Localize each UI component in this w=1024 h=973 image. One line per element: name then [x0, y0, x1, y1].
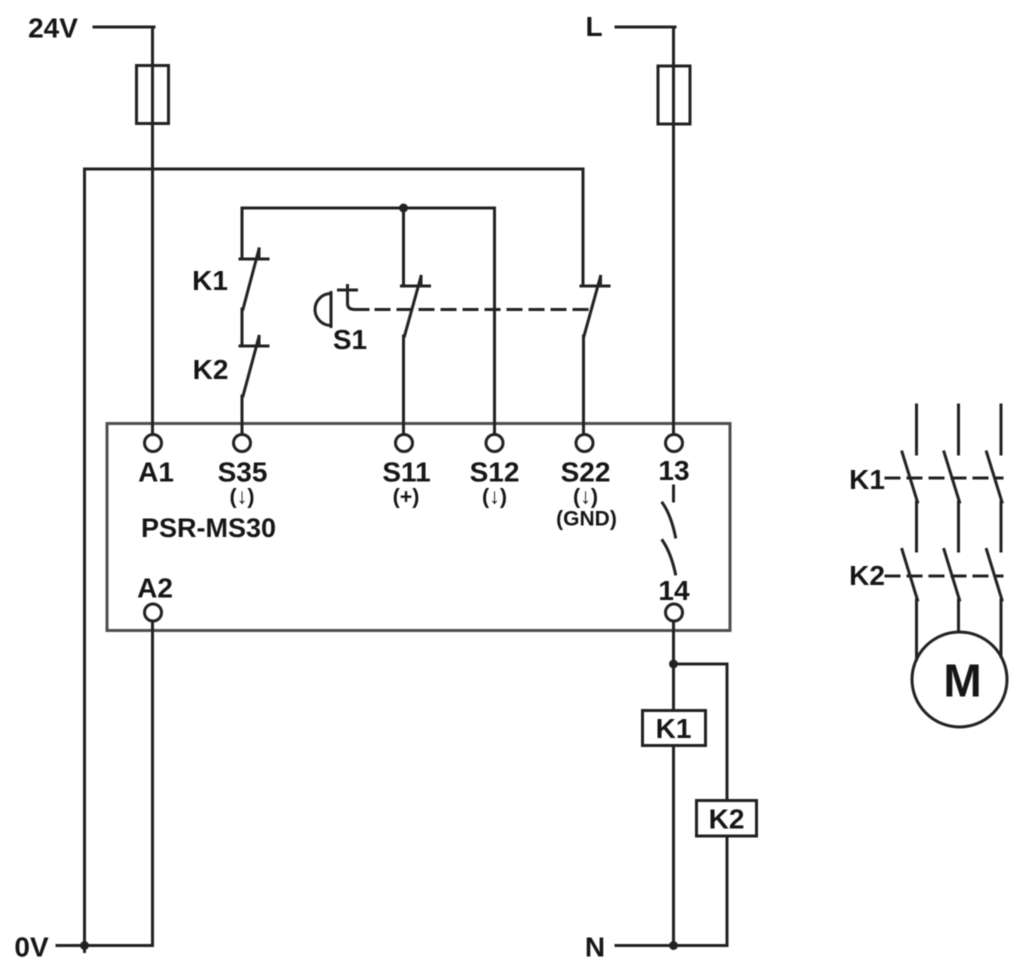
- svg-text:14: 14: [658, 575, 690, 606]
- svg-text:L: L: [585, 11, 602, 42]
- svg-text:K1: K1: [849, 464, 885, 495]
- svg-text:M: M: [943, 655, 981, 707]
- svg-text:13: 13: [658, 455, 689, 486]
- svg-text:S22: S22: [561, 457, 611, 488]
- svg-text:K1: K1: [656, 713, 692, 744]
- svg-text:N: N: [585, 932, 605, 963]
- svg-text:S1: S1: [333, 324, 367, 355]
- svg-text:K2: K2: [193, 354, 229, 385]
- svg-text:S11: S11: [382, 457, 430, 488]
- svg-text:24V: 24V: [28, 13, 78, 44]
- svg-text:(↓): (↓): [573, 485, 598, 509]
- svg-text:(↓): (↓): [482, 485, 507, 509]
- svg-text:(↓): (↓): [229, 485, 254, 509]
- svg-text:S35: S35: [218, 457, 268, 488]
- svg-text:S12: S12: [470, 457, 520, 488]
- svg-text:PSR-MS30: PSR-MS30: [141, 513, 276, 543]
- svg-text:0V: 0V: [14, 932, 49, 963]
- svg-text:K1: K1: [192, 265, 228, 296]
- svg-text:(GND): (GND): [556, 508, 617, 531]
- svg-text:(+): (+): [393, 485, 420, 509]
- svg-text:A2: A2: [137, 573, 173, 604]
- svg-text:K2: K2: [849, 560, 885, 591]
- svg-text:K2: K2: [709, 804, 745, 835]
- svg-text:A1: A1: [138, 457, 174, 488]
